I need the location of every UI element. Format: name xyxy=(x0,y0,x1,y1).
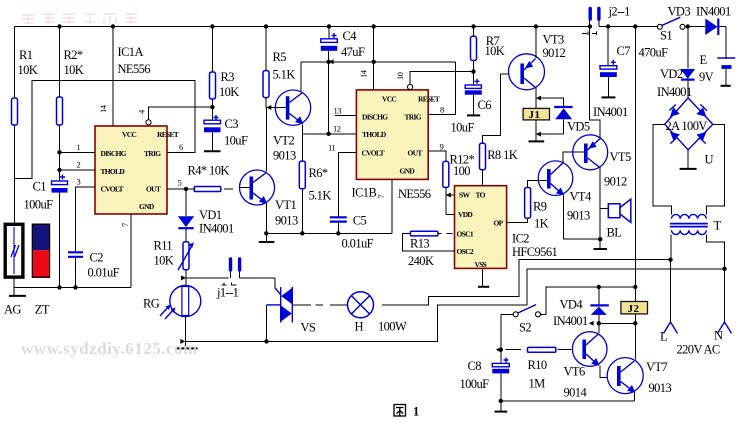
bridge rectifier U 2A 100V xyxy=(665,98,713,150)
transistor VT6 9014 xyxy=(572,332,607,367)
svg-text:C3: C3 xyxy=(225,117,239,131)
svg-text:470uF: 470uF xyxy=(639,46,669,60)
svg-text:OUT: OUT xyxy=(408,149,423,158)
wire IC1A pin2 THOLD xyxy=(60,169,96,171)
svg-text:1: 1 xyxy=(77,142,81,152)
wire VT2 collector rail to C4/IC1B xyxy=(301,61,456,63)
wire N rail to triac loop xyxy=(527,268,724,270)
svg-text:VD5: VD5 xyxy=(567,120,590,134)
resistor R7 xyxy=(473,27,475,85)
wire IC2 VDD pin xyxy=(446,214,455,216)
node R11/RG junction xyxy=(181,275,186,280)
svg-text:R1: R1 xyxy=(19,48,33,62)
wire top supply rail xyxy=(15,26,591,28)
resistor R4* xyxy=(194,187,221,192)
svg-text:S1: S1 xyxy=(660,29,672,43)
svg-text:RESET: RESET xyxy=(418,95,440,104)
wire IC1A pin4 RESET with circle xyxy=(146,120,151,125)
svg-text:RG: RG xyxy=(143,297,160,311)
svg-text:9012: 9012 xyxy=(543,46,566,60)
svg-text:VD2: VD2 xyxy=(660,67,683,81)
ground (mid rail) xyxy=(265,233,267,241)
svg-text:VCC: VCC xyxy=(382,95,396,104)
svg-text:DISCHG: DISCHG xyxy=(101,149,127,158)
svg-text:CVOLT: CVOLT xyxy=(101,185,124,194)
svg-text:1M: 1M xyxy=(529,377,546,391)
svg-text:TRIG: TRIG xyxy=(144,149,161,158)
triac VS xyxy=(281,287,293,323)
svg-text:10K: 10K xyxy=(485,44,505,58)
svg-text:R2*: R2* xyxy=(64,48,83,62)
wire j1 to triac gate xyxy=(274,278,276,288)
wire IC1B pin13 DISCHG stub xyxy=(335,115,357,117)
wire VT4 emitter xyxy=(564,196,601,240)
svg-text:j2--1: j2--1 xyxy=(608,5,631,19)
wire S1 to VD2 xyxy=(686,24,690,28)
diode VD2 xyxy=(681,69,696,79)
svg-text:100W: 100W xyxy=(378,320,407,334)
svg-text:L: L xyxy=(660,330,667,344)
svg-text:R13: R13 xyxy=(410,237,429,251)
svg-text:IN4001: IN4001 xyxy=(696,5,731,19)
svg-text:IC1B: IC1B xyxy=(352,186,377,200)
wire bottom right ground rail xyxy=(501,400,635,402)
svg-text:13: 13 xyxy=(334,106,342,116)
diode VD5 xyxy=(536,98,564,134)
svg-text:VS: VS xyxy=(301,321,316,335)
svg-text:C1: C1 xyxy=(33,180,47,194)
svg-text:THOLD: THOLD xyxy=(362,130,387,139)
wire triac MT1 to bottom rail xyxy=(266,305,268,342)
svg-text:R5: R5 xyxy=(273,50,287,64)
wire VT7 emitter to bottom rail xyxy=(634,393,636,401)
svg-text:9013: 9013 xyxy=(567,209,590,223)
wire IC2 OP pin to R9 xyxy=(507,218,528,222)
relay coil J1 xyxy=(535,98,537,134)
capacitor C7 xyxy=(607,27,609,66)
svg-text:9012: 9012 xyxy=(604,175,627,189)
svg-text:www.sydzdiy.6125.com: www.sydzdiy.6125.com xyxy=(21,339,198,358)
svg-text:OP: OP xyxy=(494,219,504,228)
svg-text:0.01uF: 0.01uF xyxy=(342,237,374,251)
caption 图 1 xyxy=(394,405,406,417)
transistor VT3 9012 xyxy=(509,54,545,90)
svg-text:E: E xyxy=(700,53,708,67)
svg-text:5.1K: 5.1K xyxy=(309,189,332,203)
wire IC1A pin7 GND xyxy=(130,214,132,287)
piezo sensor AG xyxy=(5,224,23,277)
wire primary left to node L xyxy=(670,235,672,260)
capacitor C3 xyxy=(214,115,219,120)
svg-text:10K: 10K xyxy=(154,254,174,268)
resistor R12* xyxy=(443,161,449,187)
svg-text:IN4001: IN4001 xyxy=(199,222,234,236)
svg-text:2A 100V: 2A 100V xyxy=(666,119,708,133)
switch S1 xyxy=(657,24,662,29)
wire S2 right to VD4/J2 node xyxy=(541,287,636,314)
transistor VT1 9013 xyxy=(240,170,275,205)
svg-text:C7: C7 xyxy=(617,44,631,58)
svg-text:100uF: 100uF xyxy=(24,198,54,212)
wire VT1 collector xyxy=(265,108,267,172)
ground (J1 coil) xyxy=(535,134,537,141)
wire IC1A pin14 VCC xyxy=(112,27,114,127)
relay coil J2 xyxy=(621,302,648,314)
svg-text:3: 3 xyxy=(77,177,81,187)
wire VT3 collector xyxy=(535,88,537,99)
svg-text:U: U xyxy=(705,153,714,167)
svg-text:BL: BL xyxy=(607,226,622,240)
svg-text:VT7: VT7 xyxy=(646,360,667,374)
resistor R10 with dashed leads xyxy=(496,347,501,352)
wire bottom loop rail xyxy=(185,269,527,342)
svg-text:OSC1: OSC1 xyxy=(457,229,474,238)
IC melody chip IC2 HFC9561 xyxy=(455,186,507,269)
resistor R2* xyxy=(59,27,61,182)
wire IC1A pin3 CVOLT xyxy=(76,187,96,251)
svg-text:10: 10 xyxy=(395,72,405,80)
svg-text:DISCHG: DISCHG xyxy=(362,113,388,122)
svg-text:12: 12 xyxy=(333,124,341,134)
resistor R9 xyxy=(525,188,531,219)
svg-text:VD3: VD3 xyxy=(668,5,691,19)
svg-text:VT5: VT5 xyxy=(610,150,631,164)
relay contact j1--1 xyxy=(186,270,275,278)
svg-text:HFC9561: HFC9561 xyxy=(512,245,557,259)
svg-text:9: 9 xyxy=(440,142,444,152)
terminal N xyxy=(724,269,726,323)
svg-text:9V: 9V xyxy=(699,70,714,84)
wire VT2 collector xyxy=(300,62,302,92)
ground (C3) xyxy=(204,150,221,152)
node Y below J2 xyxy=(599,322,636,324)
svg-text:10K: 10K xyxy=(18,63,38,77)
resistor R1 xyxy=(14,27,16,225)
svg-text:7: 7 xyxy=(376,195,386,199)
svg-text:OSC2: OSC2 xyxy=(457,247,474,256)
node VT2 base junction xyxy=(266,105,271,110)
svg-text:9013: 9013 xyxy=(273,149,296,163)
svg-text:IC2: IC2 xyxy=(512,232,529,246)
svg-text:9013: 9013 xyxy=(275,214,298,228)
capacitor C2 xyxy=(68,252,83,256)
svg-text:R8 1K: R8 1K xyxy=(487,148,518,162)
wire J2 coil feed from rail xyxy=(634,27,636,302)
svg-text:NE556: NE556 xyxy=(398,187,431,201)
svg-text:R6*: R6* xyxy=(309,166,328,180)
ground (AG) xyxy=(13,277,15,295)
svg-text:C5: C5 xyxy=(353,214,367,228)
diode VD1 xyxy=(185,189,187,216)
wire VT5 collector xyxy=(599,167,601,239)
photoresistor RG xyxy=(170,286,201,317)
svg-text:240K: 240K xyxy=(408,254,434,268)
svg-text:IN4001: IN4001 xyxy=(593,105,628,119)
speaker BL xyxy=(600,208,608,210)
wire IC1B pin7 GND xyxy=(391,179,393,233)
svg-text:14: 14 xyxy=(359,69,369,78)
wire IC1A pin6 TRIG loop to R1 xyxy=(15,81,195,179)
svg-text:VT3: VT3 xyxy=(543,33,564,47)
svg-text:2: 2 xyxy=(77,160,81,170)
svg-text:R4* 10K: R4* 10K xyxy=(188,164,230,178)
svg-text:R11: R11 xyxy=(154,239,173,253)
svg-text:S2: S2 xyxy=(519,321,531,335)
svg-text:ZT: ZT xyxy=(35,303,50,317)
svg-text:10K: 10K xyxy=(64,63,84,77)
potentiometer R11 xyxy=(183,242,189,270)
transistor VT5 9012 xyxy=(573,135,608,170)
wire primary right xyxy=(706,235,724,269)
svg-text:J2: J2 xyxy=(628,303,640,315)
wire VT3 base to R8 xyxy=(483,74,509,143)
svg-text:VT4: VT4 xyxy=(570,190,592,204)
wire IC1B pin14 VCC xyxy=(373,27,375,90)
capacitor C6 xyxy=(475,79,480,84)
wire IC1B pin11 CVOLT xyxy=(338,153,356,217)
svg-text:VT2: VT2 xyxy=(273,134,294,148)
svg-text:IN4001: IN4001 xyxy=(657,85,692,99)
svg-text:j1--1: j1--1 xyxy=(216,286,239,300)
transistor VT4 9013 xyxy=(538,161,573,196)
svg-text:GND: GND xyxy=(400,167,416,176)
wire bottom-left ground rail xyxy=(14,286,131,288)
svg-text:5: 5 xyxy=(178,178,182,188)
svg-text:8: 8 xyxy=(440,105,444,115)
wire mid ground rail xyxy=(266,232,392,234)
svg-text:1: 1 xyxy=(413,405,419,419)
resistor R5 xyxy=(265,27,267,108)
svg-text:9014: 9014 xyxy=(564,386,588,400)
ground (RG) xyxy=(176,347,198,349)
wire C4 to THOLD pin12 xyxy=(328,62,330,134)
svg-text:R3: R3 xyxy=(221,70,235,84)
relay contact j2--1 xyxy=(590,9,599,20)
wire VT6 emitter to VT7 base xyxy=(600,366,608,377)
wire VT3 emitter to rail xyxy=(535,27,537,59)
svg-text:7: 7 xyxy=(120,223,130,227)
svg-text:TO: TO xyxy=(476,191,486,200)
svg-text:11: 11 xyxy=(328,143,335,153)
wire VT6 collector xyxy=(598,323,600,333)
svg-text:C2: C2 xyxy=(90,251,104,265)
svg-text:TRIG: TRIG xyxy=(405,113,422,122)
svg-text:R9: R9 xyxy=(533,200,547,214)
svg-text:N: N xyxy=(714,329,723,343)
diode VD3 xyxy=(705,19,717,36)
wire IC1A pin1 DISCHG xyxy=(60,151,96,153)
svg-text:100: 100 xyxy=(453,164,470,178)
resistor R6* xyxy=(301,134,303,233)
svg-text:100uF: 100uF xyxy=(460,377,490,391)
wire secondary left to bridge xyxy=(653,124,672,214)
wire IC1B pin10 RESET with circle xyxy=(408,84,413,89)
svg-text:220V AC: 220V AC xyxy=(677,343,720,357)
terminal L xyxy=(670,260,672,323)
svg-text:6: 6 xyxy=(179,142,183,152)
wire top rail right segment xyxy=(599,27,726,58)
svg-text:VD4: VD4 xyxy=(560,298,584,312)
svg-text:SW: SW xyxy=(459,191,470,200)
svg-text:VCC: VCC xyxy=(122,130,136,139)
svg-text:5.1K: 5.1K xyxy=(273,68,296,82)
svg-text:10uF: 10uF xyxy=(451,121,475,135)
svg-text:14: 14 xyxy=(98,104,108,113)
svg-text:RESET: RESET xyxy=(157,130,179,139)
svg-text:VD1: VD1 xyxy=(199,208,222,222)
wire secondary right to bridge xyxy=(706,124,724,214)
wire IC1A pin5 OUT xyxy=(167,188,194,190)
wire VT5 emitter jog to j2-1 xyxy=(590,19,601,139)
svg-text:1K: 1K xyxy=(534,217,549,231)
resistor R13 xyxy=(403,234,455,251)
wire VT1 emitter to mid ground rail xyxy=(265,204,267,234)
ground (C8 rail) xyxy=(499,399,503,403)
battery E 9V xyxy=(717,57,735,59)
ground (IC2 VSS) xyxy=(482,268,484,286)
capacitor C8 xyxy=(500,350,502,363)
ground (bridge) xyxy=(687,150,689,169)
svg-text:IC1A: IC1A xyxy=(118,45,144,59)
wire VT4 collector to VT5 base xyxy=(563,152,584,162)
transformer T xyxy=(672,214,707,218)
wire VT7 collector xyxy=(634,323,636,359)
svg-text:10K: 10K xyxy=(219,85,239,99)
indicator ZT xyxy=(33,224,50,277)
transistor VT2 9013 xyxy=(275,90,310,125)
svg-text:VT6: VT6 xyxy=(564,365,585,379)
svg-text:GND: GND xyxy=(139,202,155,211)
lamp H 100W xyxy=(330,260,671,305)
svg-text:C8: C8 xyxy=(468,359,482,373)
wire IC1B pin8 TRIG xyxy=(428,62,456,115)
capacitor C5 xyxy=(330,217,347,221)
svg-text:OUT: OUT xyxy=(146,185,161,194)
svg-text:AG: AG xyxy=(4,303,21,317)
svg-text:47uF: 47uF xyxy=(341,45,365,59)
transistor VT7 9013 xyxy=(607,358,643,394)
switch S2 xyxy=(513,312,518,317)
resistor R3 xyxy=(211,27,213,120)
wire IC1B pin9 OUT xyxy=(428,151,446,161)
svg-text:C4: C4 xyxy=(343,29,358,43)
svg-text:IN4001: IN4001 xyxy=(553,314,588,328)
IC timer IC1B NE556 xyxy=(356,90,428,179)
svg-text:J1: J1 xyxy=(529,109,541,121)
IC op-amp/timer U IC1A NE556 xyxy=(95,126,167,214)
svg-text:H: H xyxy=(355,320,364,334)
svg-text:0.01uF: 0.01uF xyxy=(88,266,120,280)
svg-text:R10: R10 xyxy=(528,358,547,372)
svg-text:CVOLT: CVOLT xyxy=(362,149,385,158)
ground (VT5/VT4/BL) xyxy=(598,237,602,241)
svg-text:VT1: VT1 xyxy=(275,198,296,212)
svg-text:VSS: VSS xyxy=(475,260,487,269)
wire RG to bottom rail xyxy=(184,317,186,349)
svg-text:10uF: 10uF xyxy=(224,134,248,148)
wire VT2 emitter node xyxy=(302,125,328,134)
svg-text:C6: C6 xyxy=(478,98,492,112)
capacitor C1 xyxy=(59,193,61,288)
diode VD4 xyxy=(598,287,600,323)
svg-text:VDD: VDD xyxy=(458,210,473,219)
wire IC2 SW pin xyxy=(446,194,455,196)
resistor R8 xyxy=(480,143,486,170)
svg-text:THOLD: THOLD xyxy=(101,167,126,176)
watermark top xyxy=(22,14,137,24)
capacitor C4 xyxy=(328,27,330,39)
svg-text:9013: 9013 xyxy=(649,381,672,395)
svg-text:NE556: NE556 xyxy=(118,62,151,76)
node: rail junction dots xyxy=(57,24,61,28)
wire S2 left to C8 node xyxy=(501,314,513,349)
svg-text:T: T xyxy=(714,219,722,233)
